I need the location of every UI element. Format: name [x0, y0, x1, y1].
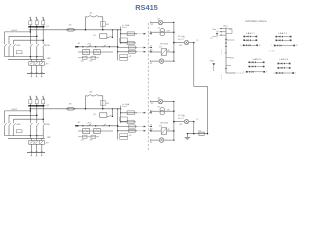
phase wire lower	[36, 48, 38, 59]
fold mark dashes lower	[221, 75, 223, 80]
svg-text:1.2: 1.2	[240, 45, 242, 47]
overload feed stub	[30, 138, 32, 140]
fold mark dashes upper	[221, 50, 223, 55]
loop vertical b	[8, 36, 10, 43]
device box row B	[128, 50, 135, 53]
svg-text:223: 223	[89, 140, 92, 142]
terminal tick at separator	[149, 33, 151, 35]
aux switch box on loop leg	[101, 101, 106, 106]
breaker -Q2 pole 3	[42, 96, 44, 100]
vertical drop from control wire	[111, 30, 113, 38]
wire to terminal row A	[118, 47, 137, 49]
svg-text:113: 113	[81, 61, 84, 63]
rail contact 1	[86, 46, 89, 48]
overload relay -F1 box	[29, 62, 45, 66]
variant group 1 row 2	[243, 39, 245, 41]
svg-text:24: 24	[266, 72, 268, 74]
loop left leg	[85, 96, 87, 109]
svg-text:-K2: -K2	[93, 114, 96, 116]
aux box 2	[91, 135, 96, 138]
loop vertical a	[4, 32, 6, 43]
svg-text:Pos.1: Pos.1	[122, 27, 127, 29]
variant group 4 row 1	[278, 63, 280, 65]
loop wire lower	[13, 48, 15, 56]
panel tick right 3	[226, 65, 231, 67]
rail contact 2	[101, 125, 104, 127]
vertical drop from control wire	[111, 109, 113, 117]
terminal tick at separator	[149, 51, 151, 53]
contactor coil -K5 box	[151, 51, 162, 53]
svg-text:-X2: -X2	[150, 103, 153, 105]
fuse -F5 box	[68, 29, 73, 32]
breaker -Q2 pole 2	[36, 96, 38, 100]
dashes upper row	[137, 112, 146, 114]
svg-text:N: N	[218, 32, 219, 34]
cluster vertical wire	[117, 38, 119, 60]
transformer -T2	[151, 110, 160, 112]
svg-text:24: 24	[295, 73, 297, 75]
aux switch box on loop leg	[101, 22, 106, 27]
variant group 2 row 1	[276, 36, 278, 38]
fuse -F6 box	[68, 108, 73, 111]
svg-text:→ 2.4 / 1.2: → 2.4 / 1.2	[176, 36, 184, 38]
terminal bar -X2	[27, 152, 45, 154]
svg-text:-B1: -B1	[106, 24, 109, 26]
contactor pole at x=30.3	[29, 122, 31, 123]
overload feed stub	[41, 138, 43, 140]
phase wire lower	[29, 48, 31, 59]
contactor pole at x=4.5	[4, 122, 6, 123]
svg-text:PE: PE	[217, 35, 219, 37]
transformer -T1	[151, 31, 160, 33]
bus wire lower 2	[8, 58, 45, 60]
link wire vertical from copy 2 lamp	[193, 122, 195, 134]
loop vertical b	[8, 115, 10, 122]
overload out stub	[30, 65, 32, 73]
interlock box	[16, 51, 22, 54]
svg-text:L-A B C 3: L-A B C 3	[253, 58, 262, 61]
phase wire L3 vertical	[42, 106, 44, 122]
contactor pole at x=9.0	[8, 43, 10, 44]
relay -K1 box	[100, 34, 107, 39]
phase wire L3 vertical	[42, 27, 44, 43]
cluster box lower 1	[120, 54, 128, 57]
wire from relay to vertical	[107, 36, 108, 38]
svg-text:-G2: -G2	[157, 98, 160, 100]
bus wire lower 1	[5, 56, 44, 58]
overload out stub	[41, 144, 43, 152]
relay -K2 box	[100, 113, 107, 118]
device box mid row	[127, 41, 134, 44]
svg-text:31: 31	[150, 46, 152, 48]
panel bottom dashes	[235, 72, 245, 74]
loop wire lower	[4, 48, 6, 56]
device box row A	[128, 125, 135, 128]
svg-text:415V 50Hz: 415V 50Hz	[160, 43, 169, 45]
sheet cross reference dashed stub	[216, 31, 218, 38]
svg-text:-B2: -B2	[106, 103, 109, 105]
dashes to separator row B	[137, 51, 146, 53]
row2 wire	[78, 51, 113, 53]
column bus vertical	[173, 101, 175, 140]
svg-text:32: 32	[150, 125, 152, 127]
variant group 3 row 2	[249, 66, 251, 68]
terminal tick at separator	[149, 126, 151, 128]
loop wire lower	[4, 127, 6, 135]
earth symbol PE	[186, 134, 188, 138]
phase wire lower	[36, 127, 38, 138]
svg-text:1L1: 1L1	[150, 129, 153, 131]
loop wire top inner	[14, 39, 44, 41]
svg-text:-R2: -R2	[129, 135, 132, 137]
lamp -H1	[184, 40, 188, 44]
loop wire lower	[8, 48, 10, 56]
contactor pole at x=30.3	[29, 43, 31, 44]
svg-text:L-A B C 2: L-A B C 2	[278, 32, 287, 35]
svg-text:2.2: 2.2	[196, 119, 198, 121]
contactor pole at x=43.2	[42, 122, 44, 123]
svg-text:→ 2.6 / 1.4: → 2.6 / 1.4	[176, 118, 184, 120]
row3 wire	[78, 136, 99, 138]
breaker -Q1 pole 2	[36, 17, 38, 21]
svg-text:1.2: 1.2	[272, 45, 274, 47]
overload out stub	[41, 65, 43, 73]
loop wire top middle	[9, 114, 37, 116]
control tap wire from L1 (y=108.8)	[30, 108, 120, 110]
upper cluster vertical	[120, 27, 122, 44]
terminal tick at separator	[149, 130, 151, 132]
terminal tick at separator	[149, 47, 151, 49]
loop vertical c	[13, 40, 15, 43]
link wire horizontal jog	[194, 85, 208, 87]
panel bracket	[226, 28, 232, 30]
loop right leg	[102, 96, 104, 109]
overload feed stub	[36, 138, 38, 140]
panel terminal arrow 1	[219, 28, 221, 29]
loop right leg	[102, 17, 104, 30]
svg-text:-K5: -K5	[159, 47, 162, 49]
column bus vertical	[173, 22, 175, 61]
wire to link	[174, 121, 185, 123]
svg-text:415V 50Hz: 415V 50Hz	[160, 122, 169, 124]
phase wire L1 vertical	[29, 106, 31, 122]
overload relay -F2 box	[29, 141, 45, 145]
wire from relay to vertical	[107, 115, 108, 117]
panel terminal arrow 3	[219, 34, 221, 35]
svg-text:L-A B C 1: L-A B C 1	[246, 32, 255, 35]
aux box 2	[91, 56, 96, 59]
loop vertical c	[13, 119, 15, 122]
cluster box lower 2	[120, 58, 128, 61]
loop wire top outer	[5, 31, 31, 33]
breaker -Q2 bus bar	[28, 105, 44, 106]
PE reference arrow	[212, 63, 215, 66]
loop left leg	[85, 17, 87, 30]
loop wire lower	[8, 127, 10, 135]
pushbutton -S4	[92, 95, 94, 97]
rail contact 1	[86, 125, 89, 127]
svg-text:Defibrillator variants: Defibrillator variants	[245, 20, 267, 23]
pilot lamp -P1	[151, 60, 160, 62]
breaker -Q1 pole 1	[29, 17, 31, 21]
cluster box top	[120, 38, 128, 42]
wire to terminal row A	[118, 126, 137, 128]
aux box 1	[83, 56, 88, 59]
wire to link	[174, 42, 185, 44]
bus wire lower 1	[5, 135, 44, 137]
panel tick right 2	[226, 56, 231, 58]
svg-text:1.2: 1.2	[244, 72, 246, 74]
row3 wire	[78, 57, 99, 59]
svg-text:415: 415	[296, 45, 299, 47]
contactor pole at x=13.5	[13, 43, 15, 44]
svg-text:-S1: -S1	[77, 43, 80, 45]
variant group 1 row 1	[243, 36, 245, 38]
svg-text:2 x 24V: 2 x 24V	[269, 51, 275, 53]
panel tick right	[226, 39, 235, 41]
coil -K4M box	[94, 129, 101, 134]
svg-text:-K6: -K6	[159, 126, 162, 128]
device box upper row	[127, 111, 134, 115]
overload feed stub	[30, 59, 32, 61]
variant group 2 row 2	[276, 40, 278, 42]
svg-text:→ 2.6 / 1.4: → 2.6 / 1.4	[176, 39, 184, 41]
phase wire lower	[42, 127, 44, 138]
device box mid row	[127, 120, 134, 123]
svg-text:→ 2.4 / 1.2: → 2.4 / 1.2	[176, 115, 184, 117]
device box row A	[128, 46, 135, 49]
svg-text:-X1: -X1	[150, 24, 153, 26]
wire to terminal row B	[118, 51, 137, 53]
terminal tick at separator	[149, 112, 151, 114]
lamp -H2	[184, 119, 188, 123]
cluster box lower 2	[120, 137, 128, 140]
wire upper row	[121, 112, 138, 114]
coil -K2M box	[94, 50, 101, 55]
contactor coil -K6 box	[151, 130, 162, 132]
overload feed stub	[36, 59, 38, 61]
sheet cross reference tick	[213, 36, 217, 38]
contactor pole at x=43.2	[42, 43, 44, 44]
svg-text:RS415: RS415	[135, 3, 158, 12]
svg-text:Next: Next	[213, 28, 217, 31]
contactor pole at x=36.8	[36, 43, 38, 44]
contactor pole at x=36.8	[36, 122, 38, 123]
ladder rail wire	[76, 125, 118, 127]
coil -K1M box	[83, 50, 90, 55]
coil -K3M box	[83, 129, 90, 134]
svg-text:-K1: -K1	[93, 35, 96, 37]
dashes upper row	[137, 33, 146, 35]
pushbutton -S2	[92, 16, 94, 18]
breaker -Q2 pole 1	[29, 96, 31, 100]
panel terminal vertical	[225, 28, 227, 74]
svg-text:-F5: -F5	[69, 25, 72, 27]
overload out stub	[36, 65, 38, 73]
cluster vertical wire	[117, 117, 119, 139]
panel bottom corner wire	[226, 72, 235, 74]
variant group 3 row 1	[249, 62, 251, 64]
loop wire top inner	[14, 118, 44, 120]
svg-text:L-A B C 4: L-A B C 4	[280, 58, 289, 61]
variant group 4 row 2	[278, 67, 280, 69]
dashed separator line	[147, 23, 149, 151]
svg-text:-R1: -R1	[129, 56, 132, 58]
cluster box top	[120, 117, 128, 121]
svg-text:2.2: 2.2	[196, 40, 198, 42]
svg-text:-G1: -G1	[157, 19, 160, 21]
contact on relay wire	[108, 36, 111, 38]
svg-text:-F6: -F6	[69, 104, 72, 106]
svg-text:1L1: 1L1	[150, 50, 153, 52]
bus wire lower 2	[8, 137, 45, 139]
contactor pole at x=13.5	[13, 122, 15, 123]
row2 wire	[78, 130, 113, 132]
cluster box lower 1	[120, 133, 128, 136]
phase wire lower	[42, 48, 44, 59]
svg-text:1 AC1: 1 AC1	[223, 24, 228, 27]
svg-text:-R3: -R3	[198, 131, 201, 133]
wire upper row	[121, 33, 138, 35]
loop wire top middle	[9, 35, 37, 37]
generator lamp -G2	[151, 100, 159, 102]
svg-text:1.8: 1.8	[210, 38, 212, 40]
loop wire top outer	[5, 110, 31, 112]
phase wire L2 vertical	[36, 106, 38, 122]
svg-text:213: 213	[89, 61, 92, 63]
wire to terminal row B	[118, 130, 137, 132]
svg-text:-T2: -T2	[157, 106, 160, 108]
ground wire	[187, 133, 207, 135]
svg-text:-K2M: -K2M	[45, 45, 50, 47]
generator lamp -G1	[151, 21, 159, 23]
loop vertical a	[4, 111, 6, 122]
breaker -Q1 bus bar	[28, 26, 44, 27]
dashes to separator row A	[137, 47, 146, 49]
device box row B	[128, 129, 135, 132]
resistor -R3 box on ground wire	[199, 132, 204, 135]
phase wire L1 vertical	[29, 27, 31, 43]
svg-text:-S2: -S2	[77, 122, 80, 124]
overload feed stub	[41, 59, 43, 61]
svg-text:-K3M: -K3M	[16, 124, 21, 126]
pushbutton -S3	[86, 95, 88, 97]
panel terminal arrow 2	[219, 31, 221, 32]
svg-text:-X2: -X2	[224, 52, 227, 54]
contact on relay wire	[108, 115, 111, 117]
overload out stub	[36, 144, 38, 152]
control tap wire from L1 (y=29.8)	[30, 29, 120, 31]
svg-text:3x415V: 3x415V	[11, 30, 18, 32]
contactor pole at x=9.0	[8, 122, 10, 123]
device box upper row	[127, 32, 134, 36]
svg-text:Pos.2: Pos.2	[122, 106, 127, 108]
svg-text:-T1: -T1	[157, 27, 160, 29]
svg-text:123: 123	[81, 140, 84, 142]
svg-text:-K1M: -K1M	[16, 45, 21, 47]
pilot lamp -P2	[151, 139, 160, 141]
terminal bar -X1	[27, 73, 45, 75]
loop wire lower	[13, 127, 15, 135]
overload out stub	[30, 144, 32, 152]
contactor pole at x=4.5	[4, 43, 6, 44]
ladder rail wire	[76, 46, 118, 48]
svg-text:415: 415	[259, 45, 262, 47]
upper cluster vertical	[120, 106, 122, 123]
pushbutton -S1	[86, 16, 88, 18]
svg-text:1.2: 1.2	[273, 73, 275, 75]
svg-text:-K4M: -K4M	[45, 124, 50, 126]
link wire vertical to ground node	[207, 86, 209, 133]
interlock box	[16, 130, 22, 133]
svg-text:3x415V: 3x415V	[11, 109, 18, 111]
dashes to separator row A	[137, 126, 146, 128]
wire mid row	[121, 121, 136, 123]
dashes to separator row B	[137, 130, 146, 132]
wire mid row	[121, 42, 136, 44]
phase wire lower	[29, 127, 31, 138]
breaker -Q1 pole 3	[42, 17, 44, 21]
aux box 1	[83, 135, 88, 138]
rail contact 2	[101, 46, 104, 48]
link wire vertical from copy 1	[193, 43, 195, 87]
phase wire L2 vertical	[36, 27, 38, 43]
